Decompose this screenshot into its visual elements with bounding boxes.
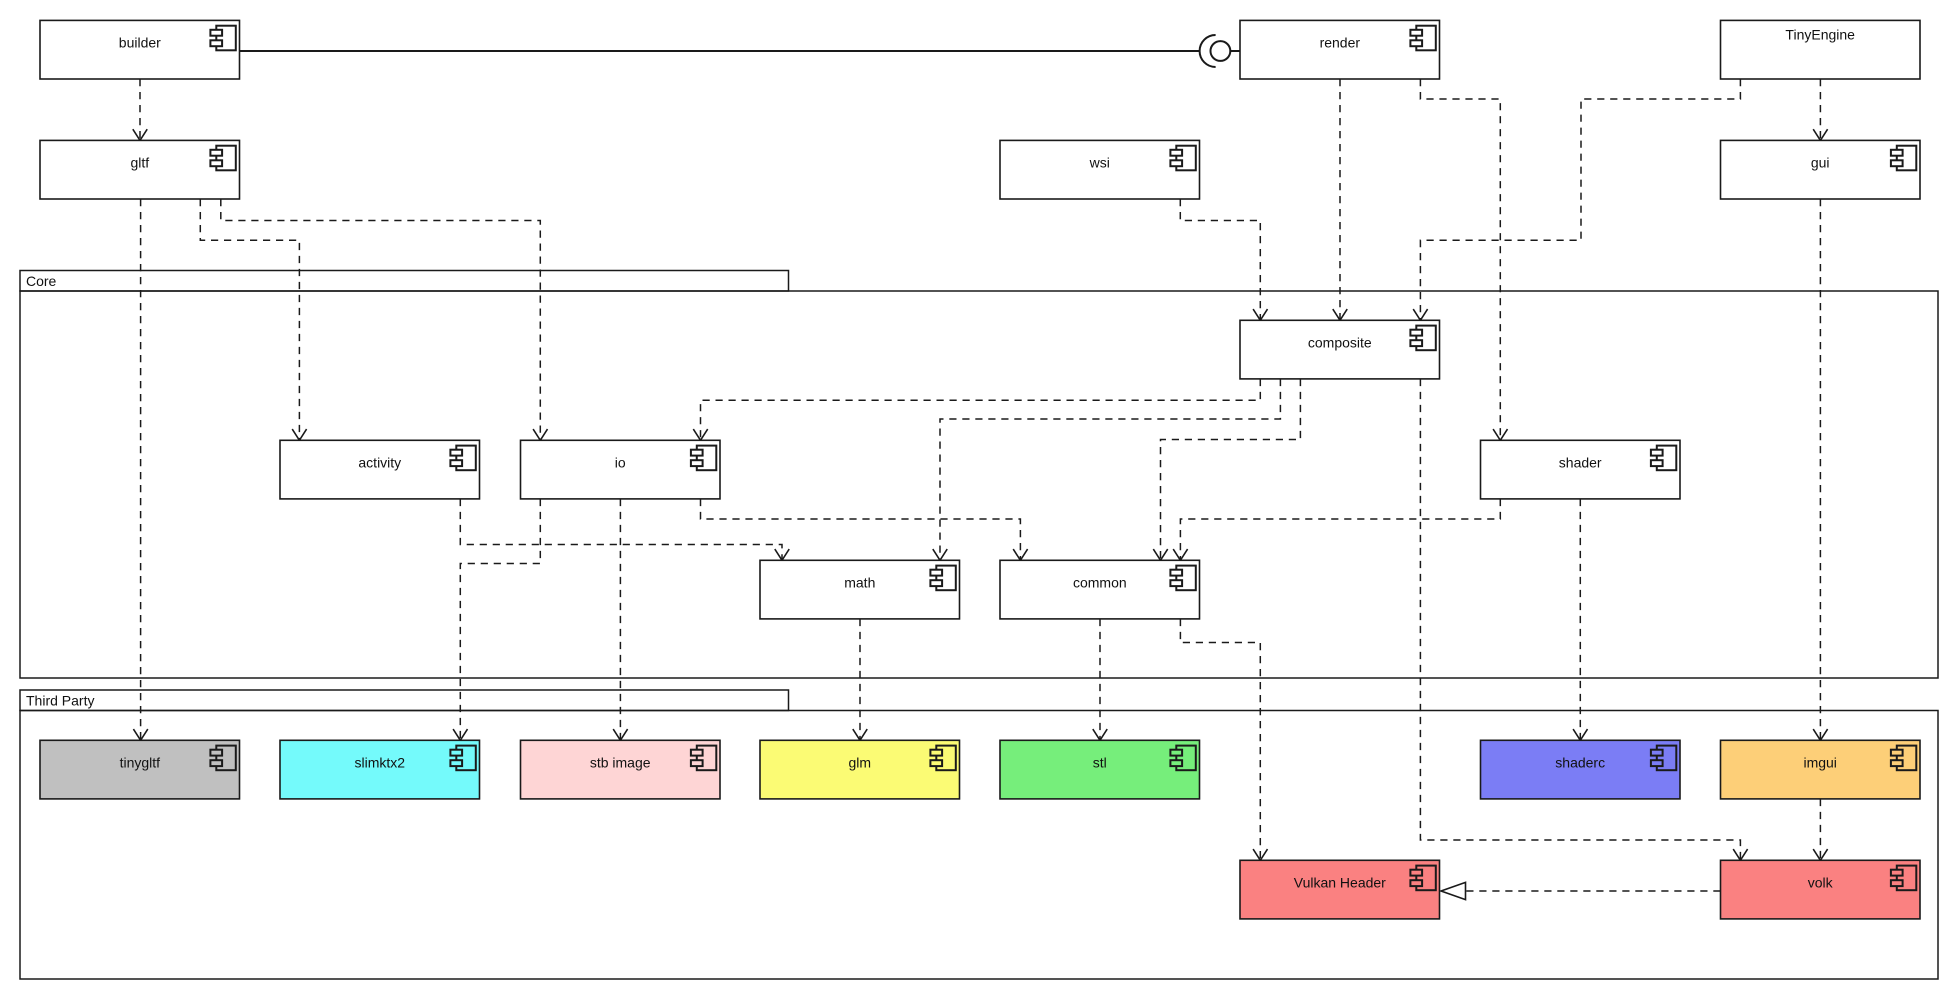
svg-text:glm: glm (849, 754, 872, 770)
component Vulkan Header (1240, 860, 1440, 919)
svg-text:TinyEngine: TinyEngine (1785, 26, 1855, 42)
edge gui->imgui (1813, 199, 1827, 740)
svg-text:math: math (844, 574, 875, 590)
edge activity->math (460, 499, 789, 560)
svg-text:Third Party: Third Party (26, 693, 94, 709)
edge io->common (701, 499, 1028, 560)
component volk (1721, 860, 1921, 919)
svg-text:gui: gui (1811, 154, 1830, 170)
component wsi (1000, 140, 1200, 199)
svg-text:render: render (1320, 34, 1361, 50)
edge io->slimktx2 (453, 499, 540, 740)
svg-text:Core: Core (26, 273, 57, 289)
edge common->stl (1093, 619, 1107, 740)
component stb image (521, 740, 721, 799)
component common (1000, 560, 1200, 619)
edge TinyEngine->composite (1413, 79, 1740, 320)
svg-text:stb image: stb image (590, 754, 651, 770)
edge io->stb-image (613, 499, 627, 740)
edge composite->volk (1420, 379, 1747, 860)
socket (required interface) (1200, 35, 1216, 67)
component shaderc (1481, 740, 1681, 799)
svg-text:slimktx2: slimktx2 (355, 754, 406, 770)
edge shader->shaderc (1573, 499, 1587, 740)
svg-text:common: common (1073, 574, 1127, 590)
edge volk->VulkanHeader (realization, open triangle) (1441, 882, 1721, 899)
edge composite->math (933, 379, 1281, 560)
edge render->shader (1420, 79, 1507, 440)
svg-text:composite: composite (1308, 334, 1372, 350)
component math (760, 560, 960, 619)
svg-text:io: io (615, 454, 626, 470)
edge shader->common (1173, 499, 1500, 560)
edge composite->io (693, 379, 1260, 440)
edge wsi->composite (1180, 199, 1267, 320)
component shader (1481, 440, 1681, 499)
package Third Party (20, 690, 1938, 979)
svg-text:shader: shader (1559, 454, 1602, 470)
component activity (280, 440, 480, 499)
svg-text:builder: builder (119, 34, 161, 50)
component tinygltf (40, 740, 240, 799)
component composite (1240, 320, 1440, 379)
component imgui (1721, 740, 1921, 799)
svg-text:stl: stl (1093, 754, 1107, 770)
component render (1240, 20, 1440, 79)
edge render->composite (1333, 79, 1347, 320)
edge gltf->io (221, 199, 548, 440)
package Core (20, 271, 1938, 679)
edge TinyEngine->gui (1813, 79, 1827, 140)
edge gltf->activity (200, 199, 306, 440)
svg-text:wsi: wsi (1089, 154, 1110, 170)
component io (521, 440, 721, 499)
edge builder->gltf (133, 79, 147, 140)
svg-text:imgui: imgui (1803, 754, 1836, 770)
svg-text:activity: activity (358, 454, 401, 470)
svg-text:gltf: gltf (130, 154, 149, 170)
edge common->VulkanHeader (1180, 619, 1267, 860)
component gltf (40, 140, 240, 199)
edge gltf->tinygltf (133, 199, 147, 740)
component builder (40, 20, 240, 79)
svg-text:Vulkan Header: Vulkan Header (1294, 874, 1386, 890)
edge math->glm (853, 619, 867, 740)
svg-text:volk: volk (1808, 874, 1834, 890)
component glm (760, 740, 960, 799)
component TinyEngine (1721, 20, 1921, 79)
wire builder-render (solid) (240, 50, 1241, 52)
svg-text:tinygltf: tinygltf (120, 754, 161, 770)
svg-text:shaderc: shaderc (1555, 754, 1605, 770)
edge imgui->volk (1813, 799, 1827, 860)
component slimktx2 (280, 740, 480, 799)
ball (provided interface) (1211, 41, 1231, 61)
component stl (1000, 740, 1200, 799)
component gui (1721, 140, 1921, 199)
edge composite->common (1153, 379, 1300, 560)
